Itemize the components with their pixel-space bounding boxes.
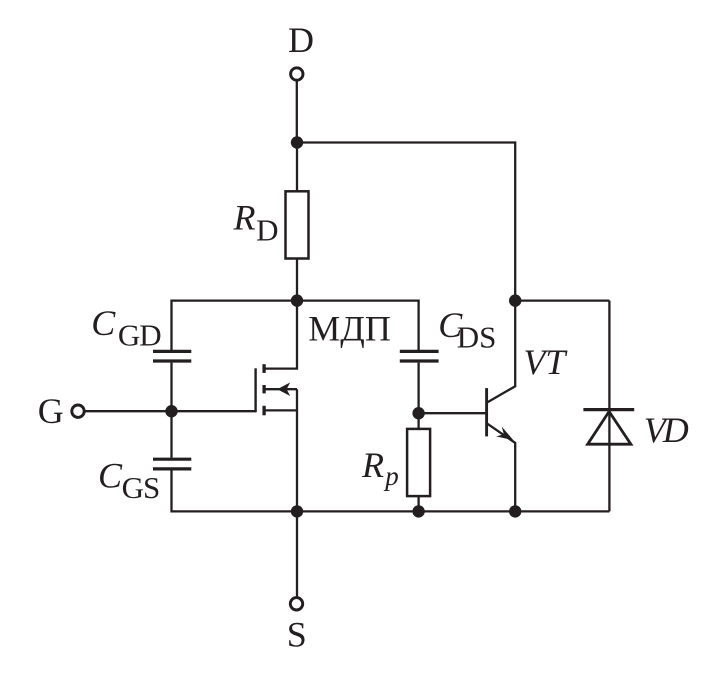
channel segment drain <box>262 364 265 373</box>
node base <box>412 407 424 419</box>
capacitor CGS <box>153 459 191 469</box>
wire VD column <box>608 301 610 512</box>
wire RD bottom to mid node <box>296 259 298 301</box>
wire top node to RD <box>296 143 298 192</box>
MOSFET MDP <box>256 301 297 512</box>
wire base node to VT base <box>419 412 486 414</box>
svg-text:p: p <box>383 461 399 491</box>
wire gate node to CGS <box>170 411 172 458</box>
node top <box>291 136 303 148</box>
base bar <box>485 388 488 436</box>
wire S terminal <box>296 511 298 596</box>
capacitor CGD <box>153 351 191 361</box>
terminal G circle <box>72 405 84 417</box>
terminal D circle <box>291 68 303 80</box>
capacitor CDS <box>400 351 439 361</box>
svg-text:S: S <box>287 615 307 655</box>
MOSFET body arrow <box>277 382 290 396</box>
svg-text:D: D <box>256 213 278 248</box>
node RD bottom <box>291 294 303 306</box>
source stub and down wire <box>265 389 298 511</box>
diode VD <box>583 410 634 445</box>
anode triangle <box>588 412 631 445</box>
svg-text:R: R <box>361 445 384 485</box>
VT emitter arrow <box>496 427 513 441</box>
node Rp bottom <box>412 505 424 517</box>
drain stub and riser <box>265 301 298 369</box>
svg-text:МДП: МДП <box>308 309 391 349</box>
wire CGD bottom to gate node <box>170 363 172 412</box>
wire CDS bottom to Rp node <box>417 363 419 429</box>
wire Rp bottom to bottom rail <box>417 496 419 511</box>
collector <box>488 301 516 403</box>
svg-text:DS: DS <box>457 320 497 355</box>
wire top rail to VT collector column <box>297 143 515 301</box>
wire VT node to VD column <box>515 299 609 301</box>
terminal S circle <box>290 598 302 610</box>
wire CGS bottom to bottom rail <box>172 470 610 511</box>
emitter <box>488 424 516 512</box>
channel segment source <box>262 406 265 416</box>
wire G terminal to gate <box>85 410 257 412</box>
svg-text:VT: VT <box>523 342 568 382</box>
svg-text:GD: GD <box>118 318 161 353</box>
node VT collector <box>509 294 521 306</box>
node gate <box>165 405 177 417</box>
svg-text:VD: VD <box>644 410 689 450</box>
gate electrode bar <box>254 368 256 412</box>
resistor RD <box>286 191 309 258</box>
node source rail <box>291 505 303 517</box>
svg-text:G: G <box>38 391 64 431</box>
svg-text:R: R <box>233 198 256 238</box>
wire mid rail with CGD and CDS corners <box>172 301 419 351</box>
svg-text:C: C <box>91 303 116 343</box>
body stub <box>265 388 298 390</box>
transistor VT <box>487 301 516 512</box>
svg-text:D: D <box>288 20 314 60</box>
node VT emitter <box>509 505 521 517</box>
resistor Rp <box>407 429 430 496</box>
channel segment body <box>262 385 265 393</box>
svg-text:C: C <box>98 456 123 496</box>
svg-text:GS: GS <box>122 470 160 505</box>
wire D terminal to top node <box>296 81 298 143</box>
cathode bar <box>583 408 634 411</box>
